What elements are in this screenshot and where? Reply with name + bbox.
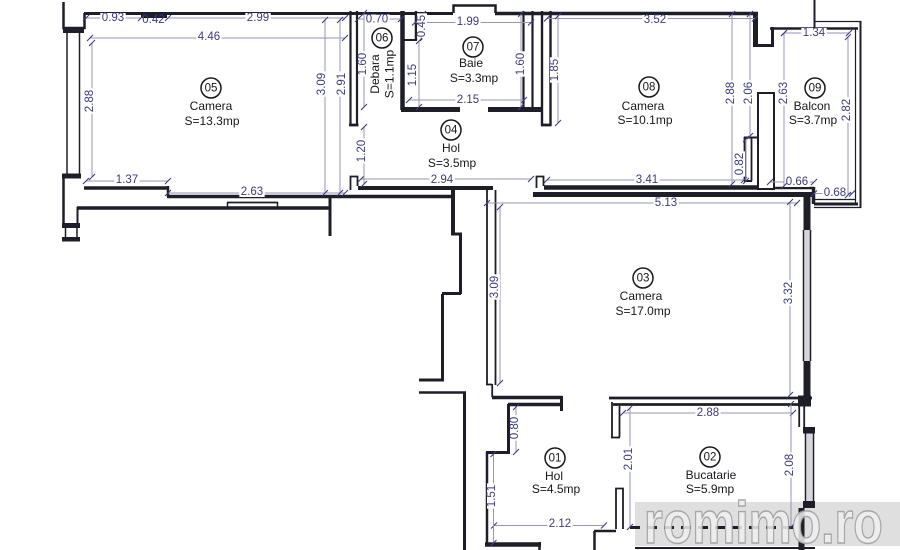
svg-text:3.32: 3.32: [783, 282, 795, 304]
svg-text:0.70: 0.70: [366, 14, 388, 26]
svg-text:0.82: 0.82: [734, 153, 746, 175]
svg-text:0.68: 0.68: [824, 187, 846, 199]
svg-text:Bucatarie: Bucatarie: [686, 468, 737, 482]
svg-text:2.88: 2.88: [725, 82, 737, 104]
svg-text:romimo.ro: romimo.ro: [644, 489, 883, 550]
svg-text:1.15: 1.15: [407, 64, 419, 86]
svg-text:1.99: 1.99: [457, 16, 479, 28]
svg-text:2.82: 2.82: [841, 99, 853, 121]
svg-text:0.66: 0.66: [786, 176, 808, 188]
svg-text:S=4.5mp: S=4.5mp: [532, 482, 581, 496]
svg-text:S=13.3mp: S=13.3mp: [184, 114, 239, 128]
svg-text:Hol: Hol: [545, 469, 563, 483]
svg-text:0.45: 0.45: [416, 15, 428, 37]
svg-text:08: 08: [643, 82, 656, 94]
svg-text:0.80: 0.80: [509, 417, 521, 439]
svg-text:2.01: 2.01: [623, 448, 635, 470]
svg-text:1.60: 1.60: [515, 53, 527, 75]
svg-text:Camera: Camera: [190, 99, 233, 113]
svg-text:2.06: 2.06: [743, 82, 755, 104]
svg-text:5.13: 5.13: [655, 197, 677, 209]
svg-text:S=17.0mp: S=17.0mp: [615, 304, 670, 318]
svg-text:1.85: 1.85: [549, 59, 561, 81]
svg-text:07: 07: [467, 42, 480, 54]
svg-text:Balcon: Balcon: [794, 99, 831, 113]
svg-text:04: 04: [445, 125, 458, 137]
svg-text:3.09: 3.09: [316, 73, 328, 95]
svg-text:3.52: 3.52: [644, 14, 666, 26]
svg-text:S=10.1mp: S=10.1mp: [617, 113, 672, 127]
svg-text:0.93: 0.93: [102, 12, 124, 24]
svg-text:06: 06: [376, 33, 389, 45]
svg-text:03: 03: [637, 273, 650, 285]
svg-text:2.88: 2.88: [697, 407, 719, 419]
svg-text:01: 01: [549, 453, 562, 465]
svg-text:2.12: 2.12: [549, 518, 571, 530]
svg-text:2.99: 2.99: [247, 12, 269, 24]
svg-text:3.41: 3.41: [636, 174, 658, 186]
svg-text:S=1.1mp: S=1.1mp: [383, 49, 397, 98]
svg-text:Debara: Debara: [368, 54, 382, 94]
svg-text:2.15: 2.15: [457, 94, 479, 106]
svg-text:2.63: 2.63: [778, 82, 790, 104]
svg-text:09: 09: [809, 83, 822, 95]
svg-text:3.09: 3.09: [489, 276, 501, 298]
svg-text:1.34: 1.34: [803, 27, 826, 39]
svg-text:1.37: 1.37: [116, 174, 138, 186]
svg-text:Camera: Camera: [620, 289, 663, 303]
svg-text:2.94: 2.94: [431, 174, 454, 186]
svg-text:S=3.5mp: S=3.5mp: [428, 156, 477, 170]
svg-text:0.42: 0.42: [142, 14, 164, 26]
svg-text:2.63: 2.63: [241, 186, 263, 198]
svg-text:4.46: 4.46: [198, 31, 220, 43]
svg-text:Hol: Hol: [442, 141, 460, 155]
svg-text:Baie: Baie: [459, 56, 483, 70]
svg-text:S=3.3mp: S=3.3mp: [450, 71, 499, 85]
svg-text:05: 05: [205, 83, 218, 95]
svg-text:1.20: 1.20: [356, 140, 368, 162]
svg-text:2.08: 2.08: [784, 454, 796, 476]
svg-text:1.51: 1.51: [486, 485, 498, 507]
svg-text:S=3.7mp: S=3.7mp: [789, 113, 838, 127]
svg-text:2.88: 2.88: [84, 90, 96, 112]
svg-text:02: 02: [704, 452, 717, 464]
svg-text:Camera: Camera: [622, 99, 665, 113]
svg-text:2.91: 2.91: [336, 73, 348, 95]
